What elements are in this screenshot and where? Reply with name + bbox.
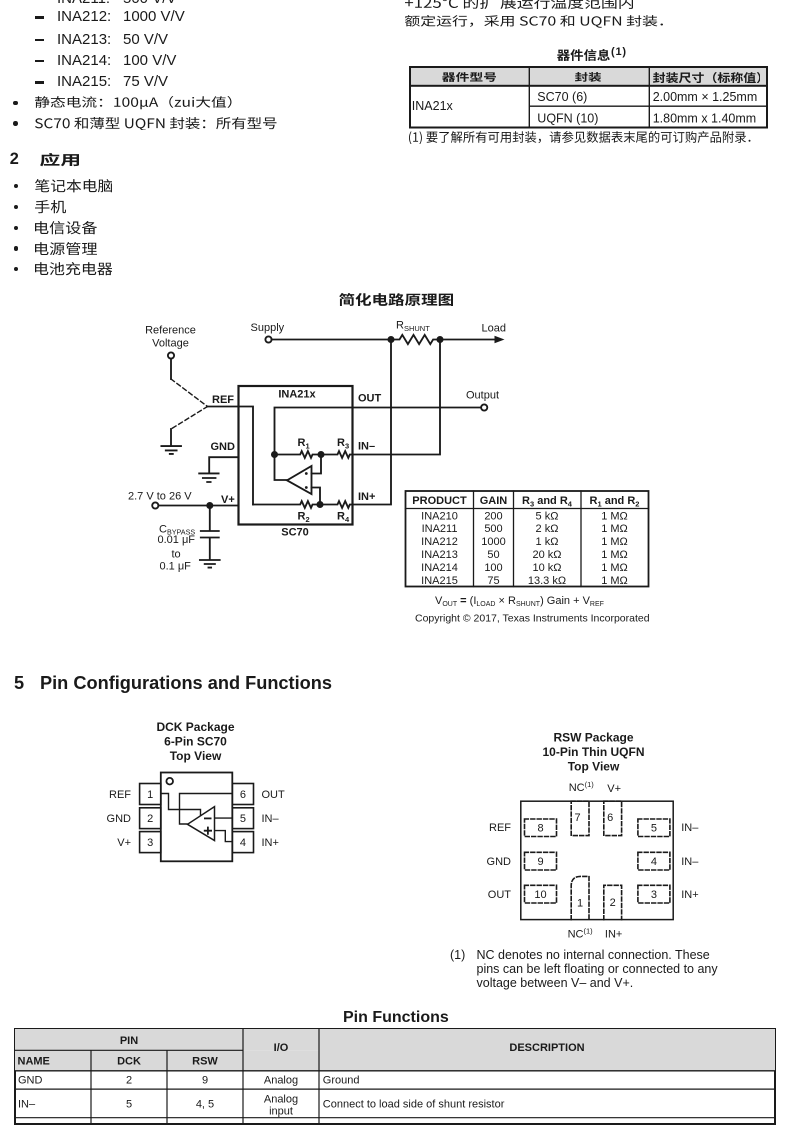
svg-text:13.3 kΩ: 13.3 kΩ — [528, 575, 566, 587]
cjk th1 — [442, 72, 496, 82]
svg-text:OUT: OUT — [262, 789, 286, 801]
svg-text:7: 7 — [575, 812, 581, 824]
pin 1 pad — [571, 876, 589, 919]
node V+ / bypass cap — [207, 503, 212, 508]
svg-text:input: input — [269, 1105, 293, 1117]
cjk a2 — [35, 200, 66, 213]
svg-text:4: 4 — [651, 856, 657, 868]
pin 5 pad — [638, 819, 670, 837]
svg-text:1000: 1000 — [481, 536, 505, 548]
wire cap to ground — [209, 538, 211, 560]
pin 8 pad — [525, 819, 557, 837]
wire IN- to load-side node — [353, 340, 441, 455]
pin 7 pad — [571, 801, 589, 835]
svg-text:1: 1 — [577, 898, 583, 910]
svg-text:UQFN (10): UQFN (10) — [537, 111, 598, 125]
svg-text:Supply: Supply — [251, 322, 285, 334]
supply input terminal 2.7V-26V — [152, 502, 158, 508]
svg-text:1 MΩ: 1 MΩ — [601, 510, 628, 522]
cjk tt — [557, 49, 610, 61]
pin 10 pad — [525, 885, 557, 903]
minus symbol — [205, 817, 211, 819]
svg-text:50: 50 — [487, 549, 499, 561]
svg-text:Output: Output — [466, 390, 499, 402]
heading 2 应用 — [10, 150, 19, 168]
svg-text:to: to — [172, 549, 181, 561]
svg-text:20 kΩ: 20 kΩ — [532, 549, 561, 561]
svg-text:2 kΩ: 2 kΩ — [536, 523, 559, 535]
svg-text:2: 2 — [147, 813, 153, 825]
node supply-side of RSHUNT — [388, 337, 393, 342]
svg-text:IN–: IN– — [358, 441, 375, 453]
svg-text:1 MΩ: 1 MΩ — [601, 523, 628, 535]
reference voltage terminal — [168, 352, 174, 358]
resistor RSHUNT — [391, 335, 442, 344]
svg-text:R3: R3 — [337, 437, 349, 451]
svg-text:RSW: RSW — [192, 1055, 218, 1067]
svg-text:200: 200 — [484, 510, 502, 522]
op-amp noninverting dot — [305, 486, 308, 489]
svg-text:REF: REF — [109, 789, 131, 801]
wire inverting input to pin 5 — [215, 817, 233, 819]
svg-text:100: 100 — [484, 562, 502, 574]
wire to bypass cap — [209, 506, 211, 531]
ground (bypass cap) — [200, 560, 220, 568]
svg-text:INA211: INA211 — [422, 523, 458, 535]
svg-text:Analog: Analog — [264, 1093, 298, 1105]
cjk a3 — [35, 221, 97, 234]
cjk t2 — [405, 15, 663, 28]
svg-text:GND: GND — [487, 856, 512, 868]
cjk th3 — [653, 72, 761, 83]
svg-text:IN–: IN– — [681, 856, 699, 868]
svg-text:I/O: I/O — [274, 1042, 289, 1054]
svg-text:1 kΩ: 1 kΩ — [536, 536, 559, 548]
svg-text:INA21x: INA21x — [412, 98, 454, 112]
svg-text:Ground: Ground — [323, 1074, 360, 1086]
svg-text:5: 5 — [651, 823, 657, 835]
svg-text:1: 1 — [147, 789, 153, 801]
svg-text:R1: R1 — [298, 437, 310, 451]
svg-text:2: 2 — [610, 897, 616, 909]
pin 5 box — [232, 808, 253, 829]
svg-text:5: 5 — [126, 1098, 132, 1110]
package outline DCK — [161, 773, 233, 862]
svg-text:RSHUNT: RSHUNT — [396, 319, 430, 333]
svg-text:0.1 μF: 0.1 μF — [160, 561, 192, 573]
svg-text:R4: R4 — [337, 511, 350, 525]
wire to ground — [170, 429, 172, 446]
resistor R2 — [253, 501, 320, 508]
svg-text:PIN: PIN — [120, 1035, 138, 1047]
svg-text:INA214: INA214 — [421, 562, 458, 574]
svg-text:IN+: IN+ — [358, 491, 375, 503]
svg-text:DESCRIPTION: DESCRIPTION — [509, 1042, 584, 1054]
wire OUT to op-amp output — [180, 794, 233, 825]
cjk a5 — [35, 262, 112, 275]
svg-text:OUT: OUT — [488, 889, 512, 901]
svg-text:V+: V+ — [221, 494, 235, 506]
svg-text:INA213: INA213 — [421, 549, 458, 561]
wire noninverting input — [312, 488, 321, 505]
ground (GND pin) — [199, 473, 218, 482]
resistor R4 — [320, 501, 353, 508]
svg-text:DCK Package: DCK Package — [156, 720, 234, 734]
svg-text:1 MΩ: 1 MΩ — [601, 549, 628, 561]
svg-text:NC(1): NC(1) — [568, 927, 594, 941]
cjk th2 — [575, 72, 601, 82]
cjk fn1 — [409, 131, 751, 144]
svg-text:Top View: Top View — [170, 749, 222, 763]
supply terminal — [265, 336, 271, 342]
output terminal — [481, 404, 487, 410]
node R1/R3 junction — [318, 452, 323, 457]
svg-text:3: 3 — [147, 837, 153, 849]
svg-text:10-Pin Thin UQFN: 10-Pin Thin UQFN — [543, 745, 645, 759]
pin 6 pad — [604, 801, 622, 835]
svg-text:6: 6 — [607, 812, 613, 824]
svg-text:INA21x: INA21x — [278, 389, 316, 401]
svg-text:PRODUCT: PRODUCT — [412, 495, 467, 507]
svg-text:2: 2 — [126, 1074, 132, 1086]
svg-text:9: 9 — [537, 856, 543, 868]
svg-text:IN–: IN– — [18, 1098, 36, 1110]
svg-text:SC70 (6): SC70 (6) — [537, 90, 587, 104]
pin 1 box — [140, 784, 161, 805]
op-amp inverting dot — [305, 472, 308, 475]
svg-text:Top View: Top View — [568, 760, 620, 774]
svg-text:R1 and R2: R1 and R2 — [590, 495, 640, 509]
svg-text:DCK: DCK — [117, 1055, 141, 1067]
svg-text:500: 500 — [484, 523, 502, 535]
node feedback/R1 — [272, 452, 277, 457]
op-amp package box INA21x — [239, 386, 353, 525]
pin 2 box — [140, 808, 161, 829]
dashed wire REF node to ground — [171, 407, 208, 430]
pin 4 box — [232, 832, 253, 853]
svg-text:6-Pin SC70: 6-Pin SC70 — [164, 735, 227, 749]
svg-text:NAME: NAME — [18, 1055, 50, 1067]
package outline RSW — [521, 801, 673, 919]
svg-text:Connect to load side of shunt: Connect to load side of shunt resistor — [323, 1098, 505, 1110]
svg-text:1 MΩ: 1 MΩ — [601, 562, 628, 574]
svg-text:5 kΩ: 5 kΩ — [536, 510, 559, 522]
wire supply to Rshunt — [272, 339, 391, 341]
svg-text:6: 6 — [240, 789, 246, 801]
svg-text:REF: REF — [489, 822, 511, 834]
cjk t1 — [405, 0, 633, 9]
svg-text:Reference: Reference — [145, 325, 196, 337]
svg-text:2.7 V to 26 V: 2.7 V to 26 V — [128, 491, 192, 503]
svg-text:IN–: IN– — [262, 813, 280, 825]
cjk a4 — [35, 242, 97, 255]
wire ref terminal — [170, 359, 172, 379]
svg-text:IN–: IN– — [681, 822, 699, 834]
node R2/R4 junction — [317, 502, 322, 507]
svg-text:3: 3 — [651, 889, 657, 901]
svg-text:1 MΩ: 1 MΩ — [601, 575, 628, 587]
wire REF pin 1 — [161, 794, 201, 816]
node load-side of RSHUNT — [437, 337, 442, 342]
cjk a1 — [35, 179, 112, 192]
plus symbol — [205, 828, 211, 834]
cjk s2 — [35, 117, 277, 131]
wire OUT to output terminal — [353, 407, 482, 409]
resistor R1 — [275, 451, 322, 458]
gain table — [406, 491, 649, 587]
svg-text:Analog: Analog — [264, 1074, 298, 1086]
svg-text:GAIN: GAIN — [480, 495, 508, 507]
svg-text:2.00mm × 1.25mm: 2.00mm × 1.25mm — [653, 90, 758, 104]
svg-text:10 kΩ: 10 kΩ — [532, 562, 561, 574]
pin 3 pad — [638, 885, 670, 903]
svg-text:OUT: OUT — [358, 393, 382, 405]
svg-text:1 MΩ: 1 MΩ — [601, 536, 628, 548]
svg-text:GND: GND — [107, 813, 132, 825]
wire REF inner — [239, 407, 254, 505]
wire REF — [208, 406, 239, 408]
ground (reference) — [161, 446, 181, 454]
pin 9 pad — [525, 852, 557, 870]
svg-text:0.01 μF: 0.01 μF — [158, 534, 196, 546]
svg-text:10: 10 — [534, 889, 546, 901]
svg-text:IN+: IN+ — [262, 837, 279, 849]
dashed wire to REF node — [171, 379, 208, 407]
svg-text:GND: GND — [18, 1074, 43, 1086]
svg-text:V+: V+ — [117, 837, 131, 849]
svg-text:V+: V+ — [607, 783, 621, 795]
pin 2 pad — [604, 885, 622, 919]
cjk h2 — [40, 153, 79, 166]
wire inverting input — [312, 455, 322, 474]
svg-text:INA212: INA212 — [421, 536, 458, 548]
load arrowhead — [495, 336, 505, 343]
svg-text:VOUT = (ILOAD × RSHUNT) Gain +: VOUT = (ILOAD × RSHUNT) Gain + VREF — [435, 595, 604, 608]
svg-text:4, 5: 4, 5 — [196, 1098, 214, 1110]
svg-text:4: 4 — [240, 837, 246, 849]
svg-text:IN+: IN+ — [681, 889, 698, 901]
wire GND pin — [209, 457, 238, 472]
svg-text:1.80mm x 1.40mm: 1.80mm x 1.40mm — [653, 111, 757, 125]
svg-text:REF: REF — [212, 394, 234, 406]
svg-text:SC70: SC70 — [281, 527, 309, 539]
op-amp U1 — [287, 466, 312, 494]
pin 4 pad — [638, 852, 670, 870]
wire OUT feedback (inner top) — [275, 408, 353, 481]
op-amp DCK — [188, 807, 215, 841]
wire IN+ to supply-side node — [353, 340, 392, 505]
svg-text:GND: GND — [211, 441, 236, 453]
svg-text:INA215: INA215 — [421, 575, 458, 587]
svg-text:IN+: IN+ — [605, 929, 622, 941]
pin 6 box — [232, 784, 253, 805]
wire to load — [440, 339, 496, 341]
svg-text:75: 75 — [487, 575, 499, 587]
capacitor CBYPASS — [201, 531, 219, 538]
cjk s1 — [35, 96, 232, 109]
svg-text:INA210: INA210 — [421, 510, 458, 522]
svg-text:9: 9 — [202, 1074, 208, 1086]
svg-text:RSW Package: RSW Package — [553, 731, 633, 745]
wire V+ — [158, 505, 238, 507]
svg-text:R3 and R4: R3 and R4 — [522, 495, 573, 509]
wire noninverting input to pin 4 — [215, 831, 233, 842]
pin 3 box — [140, 832, 161, 853]
svg-text:NC(1): NC(1) — [569, 780, 595, 794]
svg-text:8: 8 — [537, 823, 543, 835]
svg-text:Copyright © 2017, Texas Instru: Copyright © 2017, Texas Instruments Inco… — [415, 613, 650, 625]
svg-text:Voltage: Voltage — [152, 338, 189, 350]
cjk st — [339, 293, 453, 306]
pin 1 indicator — [166, 778, 173, 785]
svg-text:Load: Load — [482, 323, 506, 335]
svg-text:5: 5 — [240, 813, 246, 825]
resistor R3 — [321, 451, 353, 458]
svg-text:R2: R2 — [298, 511, 310, 525]
